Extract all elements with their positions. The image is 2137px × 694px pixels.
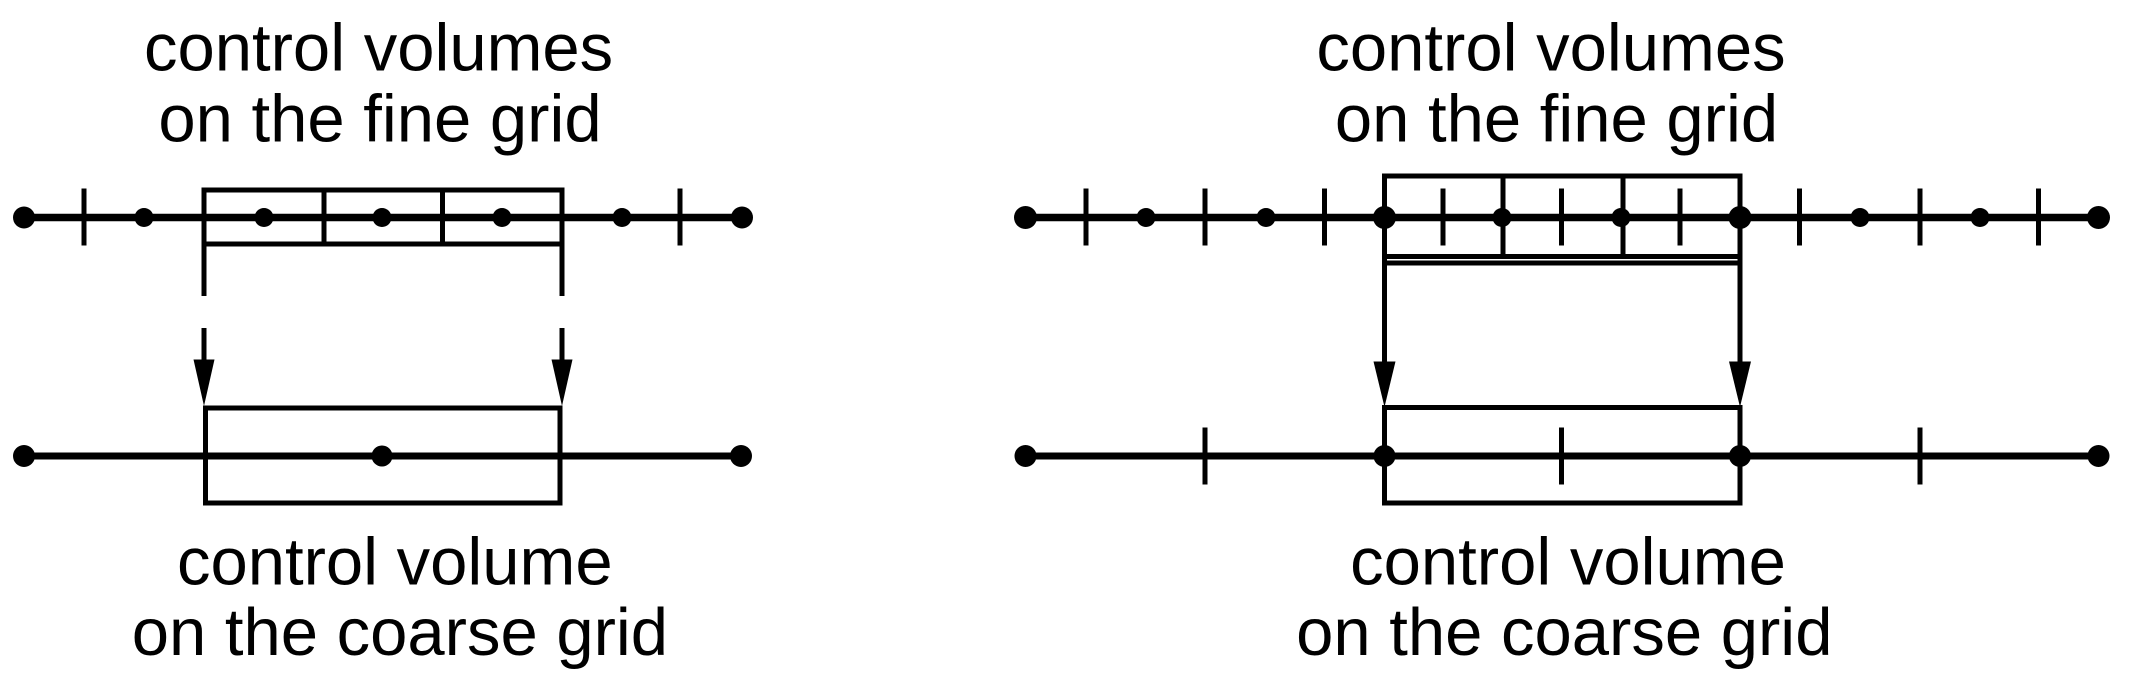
svg-text:on the fine grid: on the fine grid bbox=[158, 81, 601, 156]
svg-text:on the coarse grid: on the coarse grid bbox=[132, 595, 668, 670]
svg-text:on the fine grid: on the fine grid bbox=[1335, 81, 1778, 156]
svg-text:on the coarse grid: on the coarse grid bbox=[1296, 595, 1832, 670]
svg-text:control volume: control volume bbox=[177, 524, 613, 599]
svg-text:control volume: control volume bbox=[1350, 524, 1786, 599]
svg-text:control volumes: control volumes bbox=[144, 10, 613, 85]
svg-text:control volumes: control volumes bbox=[1316, 10, 1785, 85]
